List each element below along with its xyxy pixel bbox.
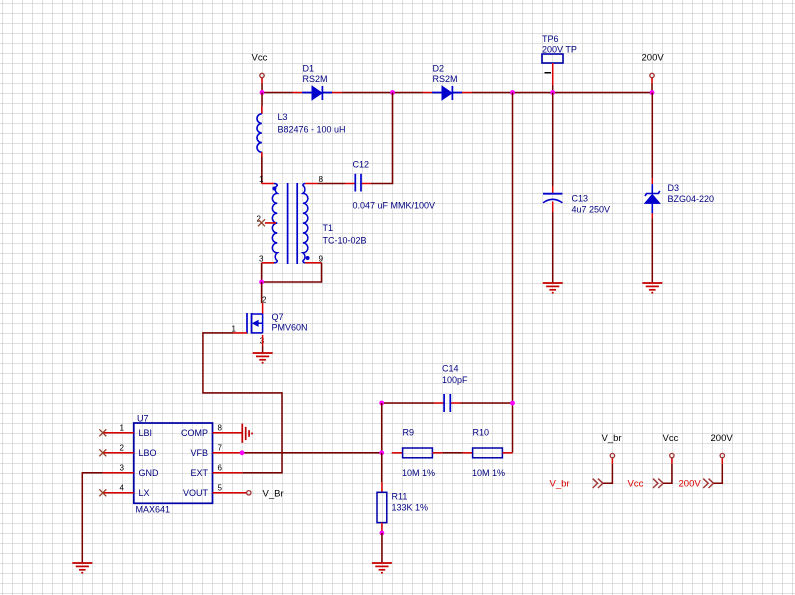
svg-text:C14: C14 bbox=[442, 364, 459, 374]
svg-text:100pF: 100pF bbox=[442, 375, 468, 385]
no-connect X pin2 bbox=[99, 449, 106, 456]
svg-text:8: 8 bbox=[319, 175, 324, 184]
svg-text:Vcc: Vcc bbox=[252, 53, 268, 64]
svg-text:3: 3 bbox=[259, 254, 264, 263]
mosfet body bbox=[246, 313, 248, 334]
capacitor C14 bbox=[382, 364, 513, 413]
junction at R10 branch bbox=[510, 90, 515, 95]
capacitor C13 bbox=[543, 93, 610, 283]
svg-text:10M 1%: 10M 1% bbox=[472, 468, 505, 478]
junction at 200V/D3 bbox=[650, 90, 655, 95]
wire R11 to ground bbox=[381, 533, 383, 563]
wire top bus segment B bbox=[342, 92, 423, 94]
svg-text:LX: LX bbox=[139, 488, 150, 498]
no-connect X pin4 bbox=[99, 489, 106, 496]
svg-text:2: 2 bbox=[262, 295, 267, 304]
wire Q7 gate to EXT routing bbox=[203, 333, 282, 473]
junction at TP6/C13 bbox=[550, 90, 555, 95]
svg-text:200V: 200V bbox=[679, 478, 702, 489]
wire pin8 to C12 bbox=[318, 183, 345, 185]
junction C14 right bbox=[510, 401, 515, 406]
svg-text:V_br: V_br bbox=[602, 433, 622, 444]
resistor R9 bbox=[392, 428, 443, 479]
secondary winding bbox=[303, 184, 308, 263]
power port V_Br at VOUT bbox=[247, 489, 284, 500]
svg-text:VOUT: VOUT bbox=[183, 488, 209, 498]
diode D2 bbox=[423, 64, 473, 101]
junction at Vcc/bus bbox=[260, 90, 265, 95]
transistor Q7 bbox=[232, 295, 308, 345]
svg-text:L3: L3 bbox=[278, 112, 288, 122]
wire C14 left down to R9 row bbox=[381, 403, 383, 453]
svg-text:133K 1%: 133K 1% bbox=[392, 503, 429, 513]
svg-text:200V: 200V bbox=[642, 53, 665, 64]
svg-text:C12: C12 bbox=[353, 160, 370, 170]
junction T1 bottom bbox=[259, 280, 264, 285]
svg-text:EXT: EXT bbox=[190, 468, 208, 478]
inductor L3 bbox=[257, 93, 346, 184]
wire T1 pin3 down bbox=[261, 263, 263, 282]
ground at Q7 bbox=[253, 353, 273, 363]
svg-text:BZG04-220: BZG04-220 bbox=[668, 194, 715, 204]
svg-text:D3: D3 bbox=[668, 183, 680, 193]
power port 200V (top right) bbox=[642, 53, 665, 93]
ground at COMP (rotated) bbox=[242, 424, 252, 443]
svg-text:V_br: V_br bbox=[550, 478, 570, 489]
svg-text:4u7 250V: 4u7 250V bbox=[572, 205, 611, 215]
svg-text:VFB: VFB bbox=[190, 448, 208, 458]
svg-text:5: 5 bbox=[218, 484, 223, 493]
svg-text:1: 1 bbox=[259, 175, 264, 184]
ground at U7 bbox=[72, 563, 92, 573]
svg-text:T1: T1 bbox=[323, 223, 334, 233]
svg-text:4: 4 bbox=[120, 484, 125, 493]
svg-text:R9: R9 bbox=[403, 428, 415, 438]
svg-text:V_Br: V_Br bbox=[263, 489, 284, 500]
wire junction to Q7 drain bbox=[261, 282, 263, 303]
primary polarity dot bbox=[272, 187, 276, 191]
wire top bus segment A bbox=[262, 92, 293, 94]
svg-text:MAX641: MAX641 bbox=[136, 505, 171, 515]
svg-text:COMP: COMP bbox=[181, 428, 208, 438]
svg-text:Vcc: Vcc bbox=[628, 478, 644, 489]
junction C14 left bbox=[379, 401, 384, 406]
wire T1 pin9 loop to junction bbox=[262, 263, 322, 282]
secondary polarity dot bbox=[306, 256, 310, 260]
junction R9 left bbox=[379, 450, 384, 455]
core bbox=[288, 183, 298, 264]
wire between R9 and R10 bbox=[442, 452, 462, 454]
diode D3 (zener) bbox=[645, 93, 714, 283]
svg-text:8: 8 bbox=[218, 424, 223, 433]
svg-text:R11: R11 bbox=[392, 492, 408, 502]
svg-text:TP6: TP6 bbox=[542, 34, 559, 44]
svg-text:RS2M: RS2M bbox=[303, 74, 328, 84]
svg-text:7: 7 bbox=[218, 444, 223, 453]
svg-text:B82476 - 100 uH: B82476 - 100 uH bbox=[278, 125, 346, 135]
svg-text:RS2M: RS2M bbox=[433, 74, 458, 84]
wire VFB to R9 junction bbox=[242, 452, 382, 454]
ground below R11 bbox=[372, 563, 392, 573]
ground at C13 bbox=[543, 283, 563, 293]
resistor R11 bbox=[377, 482, 428, 533]
wire long riser from bus to R10 bbox=[512, 93, 514, 453]
junction at VFB bbox=[240, 450, 245, 455]
svg-text:PMV60N: PMV60N bbox=[272, 323, 308, 333]
svg-text:D1: D1 bbox=[303, 64, 315, 74]
svg-text:Vcc: Vcc bbox=[663, 433, 679, 444]
svg-text:10M 1%: 10M 1% bbox=[402, 468, 435, 478]
port V_br (sheet entry) bbox=[550, 433, 622, 489]
svg-text:LBI: LBI bbox=[139, 428, 153, 438]
svg-text:LBO: LBO bbox=[139, 448, 157, 458]
svg-text:TC-10-02B: TC-10-02B bbox=[323, 236, 367, 246]
svg-text:GND: GND bbox=[139, 468, 160, 478]
capacitor C12 bbox=[345, 160, 435, 211]
resistor R10 bbox=[463, 428, 513, 479]
svg-text:200V: 200V bbox=[711, 433, 734, 444]
svg-text:3: 3 bbox=[120, 464, 125, 473]
svg-text:1: 1 bbox=[120, 424, 125, 433]
port Vcc (sheet entry) bbox=[628, 433, 679, 489]
op-amp U7 MAX641 bbox=[99, 414, 246, 515]
junction below R11 bbox=[380, 531, 385, 536]
wire GND pin to left bbox=[82, 473, 103, 563]
svg-text:D2: D2 bbox=[433, 64, 445, 74]
wire C12 to bus riser bbox=[371, 93, 393, 184]
primary winding bbox=[272, 184, 277, 263]
svg-text:2: 2 bbox=[120, 444, 125, 453]
transformer T1 bbox=[257, 175, 367, 264]
port 200V (sheet entry) bbox=[679, 433, 734, 489]
svg-text:9: 9 bbox=[319, 254, 324, 263]
svg-text:Q7: Q7 bbox=[272, 312, 284, 322]
svg-text:200V TP: 200V TP bbox=[542, 45, 577, 55]
svg-text:R10: R10 bbox=[473, 428, 490, 438]
ground at D3 bbox=[642, 283, 662, 293]
no-connect X pin1 bbox=[99, 429, 106, 436]
svg-text:C13: C13 bbox=[572, 194, 589, 204]
junction at C12 branch bbox=[390, 90, 395, 95]
svg-text:0.047 uF MMK/100V: 0.047 uF MMK/100V bbox=[353, 201, 436, 211]
svg-text:U7: U7 bbox=[137, 414, 149, 424]
test point TP6 bbox=[542, 34, 577, 93]
no-connect X on pin 2 bbox=[258, 219, 265, 226]
svg-text:6: 6 bbox=[218, 464, 223, 473]
wire Q7 source to ground bbox=[262, 346, 264, 353]
diode D1 bbox=[293, 64, 343, 101]
power port Vcc (top) bbox=[252, 53, 268, 93]
wire junction down to R11 bbox=[381, 453, 383, 483]
wire top bus segment C bbox=[472, 92, 652, 94]
